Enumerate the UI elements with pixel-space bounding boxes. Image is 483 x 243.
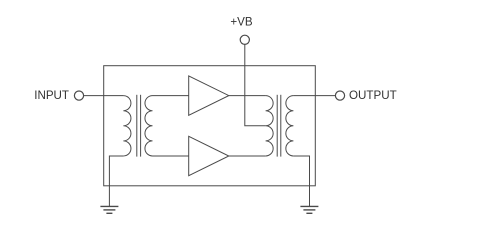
- enclosure box: [104, 66, 316, 186]
- wire T2 secondary bottom lead: [293, 156, 309, 206]
- transformer T2 core: [277, 95, 281, 157]
- transformer T2 secondary: [286, 96, 294, 156]
- svg-text:OUTPUT: OUTPUT: [349, 89, 397, 102]
- wire T1 primary bottom lead: [109, 156, 123, 206]
- wire T2 secondary top to OUTPUT: [293, 95, 335, 97]
- wire +VB feed to T2 center tap: [245, 44, 266, 125]
- ground right: [300, 206, 318, 213]
- +VB terminal: [240, 35, 249, 44]
- transformer T1 secondary: [145, 96, 153, 156]
- wire A1 output to T2 primary top: [229, 95, 266, 97]
- INPUT terminal: [74, 91, 83, 100]
- wire A2 output to T2 primary bottom: [229, 155, 266, 157]
- svg-text:INPUT: INPUT: [34, 89, 69, 102]
- transformer T2 primary: [266, 96, 274, 156]
- svg-text:+VB: +VB: [230, 16, 253, 29]
- ground left: [100, 206, 118, 213]
- op-amp A1: [189, 76, 229, 115]
- wire T1 secondary top to A1 input: [153, 95, 189, 97]
- wire input to T1 primary: [84, 95, 124, 97]
- transformer T1 primary: [123, 96, 131, 156]
- OUTPUT terminal: [335, 91, 344, 100]
- wire T1 secondary bottom to A2 input: [153, 155, 189, 157]
- transformer T1 core: [137, 95, 141, 157]
- op-amp A2: [189, 136, 229, 175]
